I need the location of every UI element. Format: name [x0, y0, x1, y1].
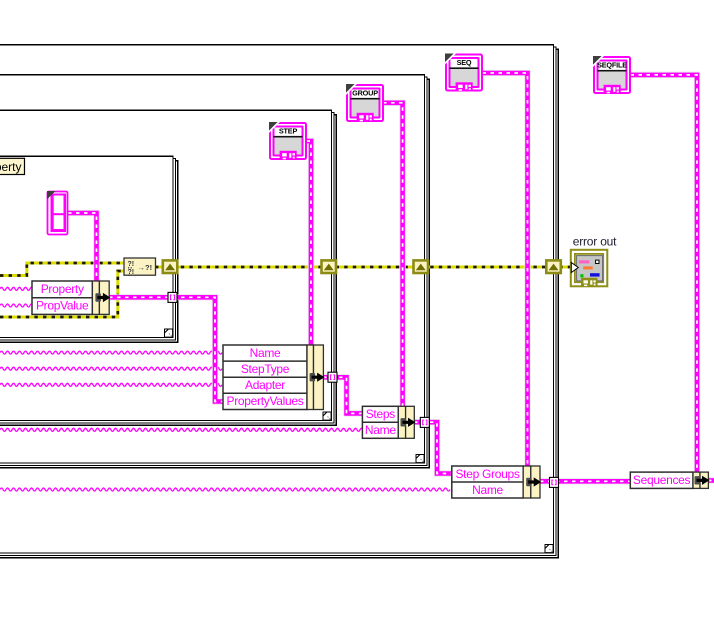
- svg-text:Adapter: Adapter: [245, 378, 285, 392]
- svg-text:PropValue: PropValue: [36, 299, 89, 313]
- svg-text:?!: ?!: [128, 261, 135, 268]
- svg-text:StepType: StepType: [241, 362, 290, 376]
- svg-text:→?!: →?!: [138, 263, 153, 272]
- svg-text:Steps: Steps: [366, 407, 395, 421]
- svg-text:Name: Name: [250, 346, 281, 360]
- svg-text:Property: Property: [0, 160, 22, 174]
- svg-text:PropertyValues: PropertyValues: [227, 394, 304, 408]
- svg-text:GROUP: GROUP: [352, 89, 378, 98]
- svg-text:SEQFILE: SEQFILE: [597, 60, 627, 69]
- svg-text:Property: Property: [41, 282, 84, 296]
- svg-text:Sequences: Sequences: [633, 473, 691, 487]
- svg-text:Name: Name: [365, 423, 396, 437]
- svg-text:error out: error out: [573, 234, 617, 248]
- svg-text:STEP: STEP: [279, 127, 298, 136]
- svg-text:Name: Name: [472, 483, 503, 497]
- svg-text:Step Groups: Step Groups: [455, 467, 519, 481]
- svg-text:SEQ: SEQ: [457, 58, 472, 67]
